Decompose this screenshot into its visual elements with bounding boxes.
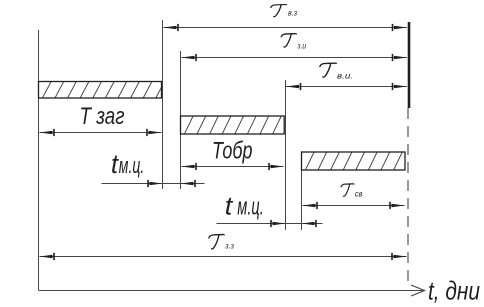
svg-text:м.ц.: м.ц. (237, 193, 263, 220)
svg-text:св: св (355, 189, 363, 199)
label Т з.и (281, 34, 306, 51)
svg-text:Т заг: Т заг (80, 103, 125, 130)
svg-text:t: t (225, 190, 234, 220)
bottom time axis with open arrowhead (39, 285, 425, 296)
dimension line Тобр (182, 163, 284, 170)
label Т в.з (271, 5, 297, 18)
dimension line Т з.з (40, 253, 407, 260)
axis label t, дни (428, 276, 480, 306)
label Т в.и. (320, 63, 353, 80)
dimension line t м.ц. (2) (217, 220, 323, 227)
hatched bar B2 (172, 116, 294, 134)
label Т з.з (209, 235, 234, 251)
extension line at start of bar 2 (x=180) (180, 51, 182, 189)
dimension line Т заг (40, 129, 162, 136)
label tм.ц. (111, 149, 144, 179)
label Т заг (80, 103, 125, 130)
dimension line Т в.и. (286, 83, 407, 90)
dimension line Т в.з (164, 24, 408, 31)
svg-text:t, дни: t, дни (428, 276, 480, 306)
svg-text:м.ц.: м.ц. (119, 153, 145, 178)
extension line at start of bar 3 (x=301) (301, 170, 303, 230)
dimension line tм.ц. (102, 180, 205, 187)
hatched bar B3 (293, 152, 415, 170)
extension line at end of bar 1 (x=162) (162, 20, 164, 189)
svg-text:з.и: з.и (297, 40, 307, 50)
svg-text:з.з: з.з (224, 240, 234, 250)
left vertical axis line (38, 30, 40, 290)
label t м.ц. (225, 190, 264, 220)
extension line at end of bar 2 (x=285) (285, 80, 287, 230)
dimension line Т з.и (182, 54, 408, 61)
hatched bar B1 (30, 82, 165, 99)
right boundary: thick segment + dashed line (408, 22, 409, 288)
svg-text:Тобр: Тобр (212, 138, 253, 165)
label Тобр (212, 138, 253, 165)
svg-text:в.и.: в.и. (337, 70, 353, 80)
label Т св (341, 184, 363, 199)
svg-text:в.з: в.з (288, 8, 297, 18)
dimension line Т св (303, 202, 405, 209)
